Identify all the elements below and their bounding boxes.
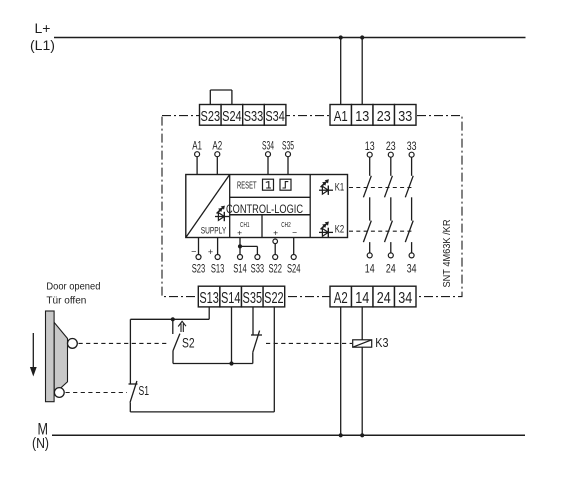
- svg-text:A1: A1: [334, 109, 348, 125]
- svg-text:+: +: [208, 247, 213, 257]
- svg-text:A1: A1: [192, 140, 202, 152]
- svg-text:13: 13: [355, 109, 369, 125]
- svg-text:K3: K3: [375, 335, 388, 350]
- svg-text:S1: S1: [139, 383, 150, 398]
- svg-text:CONTROL-LOGIC: CONTROL-LOGIC: [226, 202, 303, 216]
- svg-text:(N): (N): [32, 435, 49, 452]
- svg-text:13: 13: [365, 141, 375, 153]
- svg-text:Tür offen: Tür offen: [46, 295, 86, 306]
- svg-text:24: 24: [386, 264, 396, 276]
- svg-text:K2: K2: [335, 223, 344, 235]
- svg-text:CH2: CH2: [281, 220, 291, 229]
- svg-text:S13: S13: [211, 263, 225, 275]
- svg-text:A2: A2: [334, 290, 348, 307]
- svg-text:S14: S14: [221, 290, 241, 307]
- svg-text:S35: S35: [282, 140, 294, 152]
- svg-text:34: 34: [398, 290, 412, 307]
- svg-text:S34: S34: [262, 140, 274, 152]
- svg-text:L+: L+: [35, 20, 51, 36]
- svg-text:S23: S23: [201, 109, 221, 125]
- svg-text:S2: S2: [182, 335, 195, 350]
- svg-text:S33: S33: [251, 263, 265, 275]
- svg-text:S14: S14: [233, 263, 247, 275]
- svg-text:K1: K1: [335, 181, 344, 193]
- svg-text:S22: S22: [264, 290, 284, 307]
- svg-text:S23: S23: [192, 263, 206, 275]
- svg-text:−: −: [292, 227, 297, 237]
- svg-text:14: 14: [355, 290, 369, 307]
- svg-text:SNT 4M63K /KR: SNT 4M63K /KR: [442, 220, 453, 288]
- svg-text:23: 23: [377, 109, 391, 125]
- svg-text:34: 34: [407, 264, 417, 276]
- svg-text:S33: S33: [244, 109, 264, 125]
- svg-text:+: +: [273, 228, 278, 238]
- svg-text:−: −: [191, 247, 196, 257]
- svg-text:RESET: RESET: [237, 180, 257, 192]
- svg-text:S35: S35: [243, 290, 263, 307]
- svg-text:24: 24: [377, 290, 391, 307]
- svg-text:14: 14: [365, 264, 375, 276]
- svg-text:A2: A2: [212, 140, 222, 152]
- svg-text:+: +: [237, 228, 242, 238]
- svg-text:33: 33: [398, 109, 412, 125]
- svg-text:23: 23: [386, 141, 396, 153]
- svg-text:S22: S22: [268, 263, 282, 275]
- svg-text:(L1): (L1): [30, 37, 55, 53]
- svg-text:S24: S24: [222, 109, 242, 125]
- svg-text:S13: S13: [199, 290, 219, 307]
- svg-text:33: 33: [407, 141, 417, 153]
- svg-text:S24: S24: [287, 263, 301, 275]
- svg-text:Door opened: Door opened: [46, 281, 100, 292]
- svg-text:S34: S34: [265, 109, 285, 125]
- svg-text:SUPPLY: SUPPLY: [201, 225, 227, 235]
